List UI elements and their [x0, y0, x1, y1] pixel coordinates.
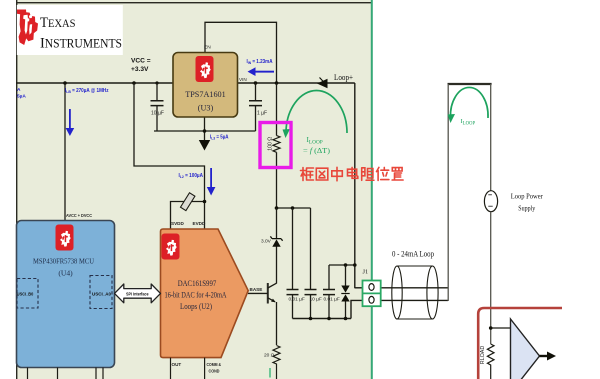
- resistor R1 100 ohm: [268, 83, 281, 208]
- connector J1: [363, 269, 381, 307]
- wire collector rail: [277, 207, 311, 209]
- arrow IIN blue: [248, 67, 275, 76]
- DAC U2 DAC161S997: [161, 229, 249, 358]
- wire MCU bottom stubs: [28, 368, 104, 379]
- ground arrow TPS: [199, 117, 210, 151]
- svg-text:IL2 = 100µA: IL2 = 100µA: [179, 173, 204, 179]
- svg-text:0 - 24mA Loop: 0 - 24mA Loop: [392, 250, 434, 259]
- MCU U4 MSP430FR5738: [17, 221, 115, 368]
- svg-text:J1: J1: [363, 269, 369, 276]
- node bottom rail dots: [309, 317, 348, 321]
- svg-text:SVDD: SVDD: [171, 221, 184, 226]
- capacitor C6 10uF: [305, 208, 322, 319]
- svg-text:BASE: BASE: [250, 287, 263, 292]
- wire ground rail: [154, 130, 256, 132]
- svg-text:Loops (U2): Loops (U2): [180, 302, 212, 311]
- pin label COMM COND: [207, 362, 222, 374]
- svg-text:OUT: OUT: [172, 362, 182, 367]
- svg-text:RLOAD: RLOAD: [480, 346, 486, 365]
- svg-text:100 Ω: 100 Ω: [268, 137, 274, 151]
- resistor RLOAD: [480, 344, 494, 379]
- TI logo: [17, 10, 122, 52]
- svg-text:COMM &: COMM &: [207, 362, 222, 367]
- green arc ILOOP right: [448, 87, 489, 126]
- ferrite bead FB1: [180, 193, 194, 211]
- capacitor C7 0.01uF: [323, 265, 340, 319]
- svg-text:3.0V: 3.0V: [261, 239, 272, 245]
- svg-text:5µA: 5µA: [17, 94, 26, 100]
- capacitor input C1: [151, 83, 164, 131]
- wire J1 pin1: [355, 287, 363, 289]
- svg-text:(U4): (U4): [58, 269, 73, 278]
- zener D1 3.0V: [261, 208, 283, 284]
- cable shield 0-24mA loop: [392, 250, 438, 320]
- node junction: [203, 200, 207, 204]
- svg-text:VCC =: VCC =: [131, 58, 151, 65]
- red annotation wire: [478, 308, 562, 379]
- svg-text:TPS7A1601: TPS7A1601: [185, 90, 226, 99]
- svg-text:COND: COND: [209, 369, 221, 374]
- svg-text:EN: EN: [204, 45, 211, 51]
- loop power supply BT1: [484, 191, 543, 213]
- capacitor output C2: [249, 83, 267, 131]
- svg-text:ILB = 270µA @ 1MHz: ILB = 270µA @ 1MHz: [65, 88, 109, 94]
- svg-text:USCI_B0: USCI_B0: [17, 292, 34, 297]
- port USCI_A0: [90, 276, 112, 309]
- svg-text:0.01 µF: 0.01 µF: [289, 297, 305, 303]
- wire Loop+ vertical: [354, 83, 356, 288]
- wire cable conductors: [381, 288, 448, 301]
- wire base: [248, 292, 268, 294]
- svg-text:+3.3V: +3.3V: [131, 66, 149, 73]
- svg-text:A: A: [17, 87, 21, 93]
- op-amp U5: [511, 319, 557, 379]
- marker Loop+ arrow: [317, 73, 353, 88]
- wire DAC supply branch: [134, 83, 205, 229]
- wire EN loop: [205, 22, 277, 83]
- svg-text:(U3): (U3): [198, 104, 214, 113]
- resistor R2 20 ohm: [264, 346, 280, 379]
- arrow ILB blue: [66, 109, 75, 136]
- svg-text:IIN = 1.23mA: IIN = 1.23mA: [247, 59, 273, 65]
- svg-text:INSTRUMENTS: INSTRUMENTS: [40, 35, 122, 52]
- svg-text:10 µF: 10 µF: [151, 111, 164, 117]
- wire supply to RLOAD: [490, 212, 492, 344]
- capacitor C5 0.01uF: [287, 208, 305, 319]
- svg-text:SPI Interface: SPI Interface: [126, 291, 149, 296]
- wire loop right side: [448, 84, 492, 301]
- wire J1 pin2: [351, 300, 363, 318]
- svg-text:= f (ΔT): = f (ΔT): [303, 147, 331, 155]
- node main rail junctions: [63, 81, 278, 85]
- wire DAC bottom stubs: [171, 358, 205, 379]
- svg-text:16-bit DAC for 4-20mA: 16-bit DAC for 4-20mA: [165, 291, 227, 300]
- svg-text:USCI_A0: USCI_A0: [92, 292, 111, 297]
- wire VCC to MCU: [64, 83, 66, 221]
- SPI interface arrow: [115, 284, 161, 303]
- port USCI_B0: [17, 279, 38, 309]
- svg-text:EVDD: EVDD: [193, 221, 206, 226]
- wire ferrite branch: [171, 202, 205, 230]
- green tick bottom: [269, 368, 271, 378]
- wire bottom rail: [293, 318, 352, 320]
- wire op-amp input: [489, 326, 511, 330]
- svg-text:0.01 µF: 0.01 µF: [324, 297, 340, 303]
- annotation Chinese text: resistor location in block diagram: [301, 167, 404, 181]
- svg-text:IL3 = 5µA: IL3 = 5µA: [210, 135, 229, 141]
- wire loop cap rail: [329, 264, 355, 266]
- regulator U3 TPS7A1601: [173, 53, 238, 118]
- TVS diode D2: [341, 265, 349, 319]
- transistor Q1: [268, 283, 277, 304]
- svg-text:Loop+: Loop+: [334, 73, 353, 82]
- wire emitter to Rsense: [276, 302, 278, 345]
- svg-text:1 µF: 1 µF: [257, 111, 267, 117]
- svg-text:MSP430FR5738 MCU: MSP430FR5738 MCU: [33, 257, 94, 266]
- node dots: [344, 263, 357, 267]
- svg-text:20 Ω: 20 Ω: [264, 353, 275, 359]
- arrow IL2 blue: [207, 168, 216, 196]
- svg-text:VIN: VIN: [239, 77, 247, 82]
- svg-text:Loop Power: Loop Power: [511, 192, 543, 201]
- svg-text:AVCC + DVCC: AVCC + DVCC: [66, 213, 93, 218]
- green arc ILOOP left: [283, 91, 348, 155]
- magenta highlight box: [260, 123, 291, 168]
- svg-text:TEXAS: TEXAS: [40, 15, 76, 31]
- label left edge fragment: [17, 87, 26, 100]
- svg-text:DAC161S997: DAC161S997: [178, 279, 217, 288]
- label VCC +3.3V: [131, 58, 151, 73]
- svg-text:10 µF: 10 µF: [310, 297, 322, 303]
- svg-text:Supply: Supply: [518, 204, 535, 213]
- node rail dots: [275, 206, 295, 210]
- wire 3.3V main rail: [16, 82, 355, 84]
